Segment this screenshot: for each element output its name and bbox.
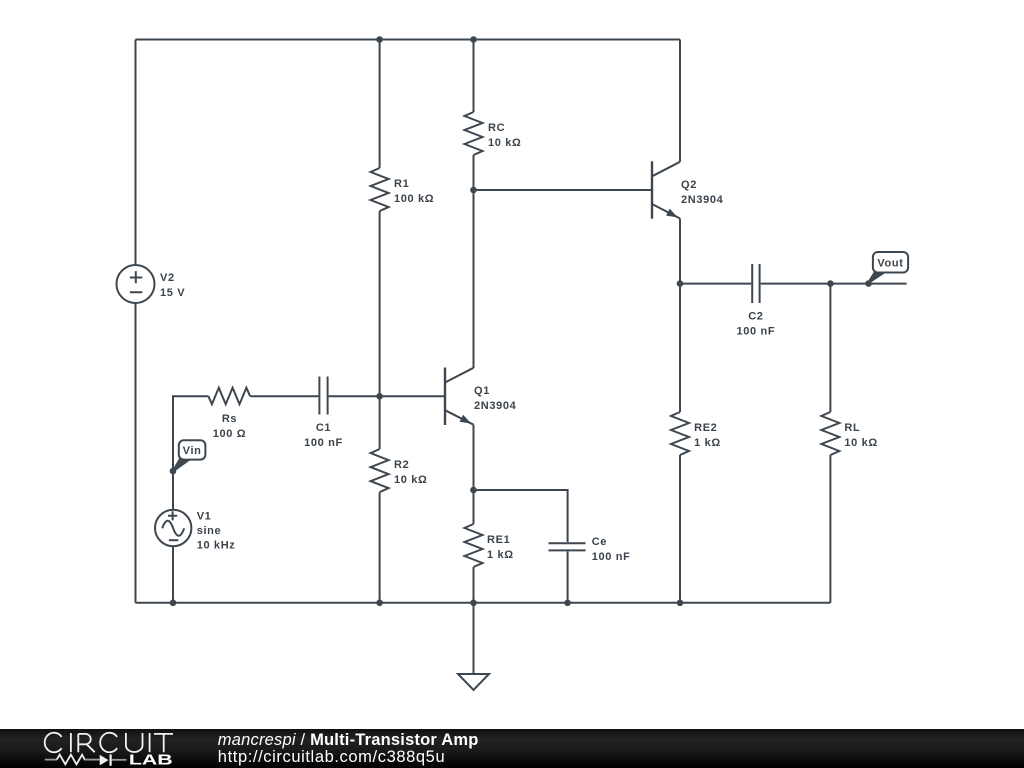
svg-text:2N3904: 2N3904 [474,400,517,412]
logo diode bar [109,754,111,765]
wire left rail upper [135,40,137,266]
label R1 100 kOhm [394,178,434,205]
svg-text:R1: R1 [394,178,409,190]
svg-text:mancrespi / Multi-Transistor A: mancrespi / Multi-Transistor Amp [218,731,479,749]
svg-text:V2: V2 [160,272,175,284]
svg-text:10 kΩ: 10 kΩ [844,437,877,449]
svg-text:Q2: Q2 [681,179,697,191]
label RE1 1 kOhm [487,534,514,561]
label Ce 100 nF [592,536,631,563]
node bottom V1 [170,600,177,607]
resistor R1 [371,168,389,211]
logo diode triangle [100,755,109,766]
svg-text:Vin: Vin [183,445,202,457]
voltage source V2 [117,265,155,303]
wire RL top [829,284,831,412]
wire R2 bottom [379,492,381,603]
capacitor C2 [752,264,759,303]
svg-text:Ce: Ce [592,536,607,548]
label Rs 100 Ohm [213,413,246,440]
wire Q1 base [380,395,444,397]
label R2 10 kOhm [394,459,427,486]
label RC 10 kOhm [488,122,521,149]
wire Q1 collector [473,190,475,368]
wire RL bottom [829,455,831,603]
resistor RE1 [465,524,483,567]
logo wire segments [45,759,127,761]
wire Rs to C1 [250,395,318,397]
node Vout tap [865,280,872,287]
node bottom RE1 [470,600,477,607]
svg-text:10 kΩ: 10 kΩ [488,137,521,149]
svg-text:RE2: RE2 [694,422,717,434]
wire emitter to C2 [680,283,751,285]
logo zigzag [57,755,85,765]
wire R2 top [379,396,381,449]
voltage source V1 [155,510,191,546]
svg-text:100 Ω: 100 Ω [213,428,246,440]
svg-text:100 nF: 100 nF [592,551,631,563]
wire RC top [473,40,475,113]
wire top rail [136,39,681,41]
wire Ce bottom [567,551,569,602]
wire Q2 base [474,189,652,191]
flag Vin [173,440,206,471]
resistor RE2 [671,412,689,455]
svg-text:100 nF: 100 nF [737,326,776,338]
svg-text:http://circuitlab.com/c388q5u: http://circuitlab.com/c388q5u [218,748,445,766]
svg-text:100 nF: 100 nF [304,437,343,449]
svg-text:Q1: Q1 [474,385,490,397]
svg-text:LAB: LAB [129,752,173,768]
wire RC bottom to node [473,155,475,190]
wire Q1 emitter [473,425,475,490]
resistor RC [465,112,483,155]
footer bar [0,729,1024,768]
node bottom R2 [376,600,383,607]
wire R1 top [379,40,381,169]
label Q2 2N3904 [681,179,724,206]
svg-text:C1: C1 [316,422,331,434]
resistor RL [821,412,839,455]
transistor Q2 [652,161,680,218]
capacitor Ce [549,543,586,550]
capacitor C1 [319,377,327,415]
wire bottom rail [136,602,831,604]
svg-text:15 V: 15 V [160,287,185,299]
wire RE2 top [679,284,681,412]
svg-text:10 kΩ: 10 kΩ [394,474,427,486]
logo CIRCUIT [45,733,173,753]
wire RE1 top [473,490,475,524]
svg-text:100 kΩ: 100 kΩ [394,193,434,205]
wire input corner [173,396,208,510]
resistor Rs [208,388,250,405]
svg-text:1 kΩ: 1 kΩ [694,437,721,449]
svg-text:RL: RL [844,422,860,434]
svg-text:R2: R2 [394,459,409,471]
wire Ce branch top [474,490,568,542]
label V2 15 V [160,272,185,299]
flag Vout [868,252,908,283]
node Q2 emitter C2 [677,280,684,287]
svg-text:sine: sine [197,525,222,537]
svg-text:2N3904: 2N3904 [681,194,724,206]
label RE2 1 kOhm [694,422,721,449]
wire R1 bottom to node [379,211,381,396]
wire C1 to node [329,395,380,397]
svg-text:1 kΩ: 1 kΩ [487,549,514,561]
node bottom Ce [564,600,571,607]
wire RE2 bottom [679,455,681,603]
wire ground stem [473,603,475,674]
label C1 100 nF [304,422,343,449]
ground [458,674,489,690]
resistor R2 [371,449,389,492]
wire C2 to output [761,283,907,285]
transistor Q1 [445,368,474,426]
wire Q2 emitter [679,219,681,284]
node bottom RE2 [677,600,684,607]
node RC bottom [470,187,477,194]
node top rail R1 [376,36,383,43]
svg-text:V1: V1 [197,511,212,523]
node C2 RL [827,280,834,287]
label C2 100 nF [737,311,776,338]
svg-text:C2: C2 [748,311,763,323]
label V1 sine 10 kHz [197,511,236,552]
wire Q2 collector [679,40,681,162]
wire RE1 bottom [473,567,475,603]
node Vin tap [170,468,177,475]
svg-text:10 kHz: 10 kHz [197,540,236,552]
label RL 10 kOhm [844,422,877,449]
svg-text:RC: RC [488,122,505,134]
svg-text:Rs: Rs [222,413,237,425]
node R1 R2 base [376,393,383,400]
label Q1 2N3904 [474,385,517,412]
node top rail RC [470,36,477,43]
node emitter RE1 Ce [470,487,477,494]
wire left rail lower [135,303,137,603]
svg-text:RE1: RE1 [487,534,510,546]
wire V1 bottom [172,546,174,603]
svg-text:Vout: Vout [877,258,903,270]
